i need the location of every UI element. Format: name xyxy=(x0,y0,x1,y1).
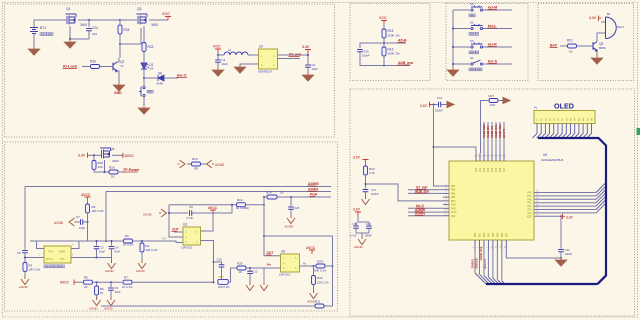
svg-text:10K 0.1%: 10K 0.1% xyxy=(218,285,230,289)
wire: Q5 emitter to ground xyxy=(596,51,598,58)
svg-text:L1: L1 xyxy=(228,48,232,52)
svg-text:PA12: PA12 xyxy=(451,204,457,207)
switch S2 xyxy=(471,24,483,30)
capacitor C30 xyxy=(357,50,363,52)
svg-text:PB4: PB4 xyxy=(451,197,456,199)
svg-text:R26: R26 xyxy=(109,166,115,170)
wire: U6 feedback top xyxy=(264,235,333,237)
wire: branch to MCU top pin1 xyxy=(434,147,477,153)
svg-text:AVCC: AVCC xyxy=(81,193,91,197)
analog ground reference into in- xyxy=(159,209,167,217)
svg-text:PA10: PA10 xyxy=(451,211,457,214)
svg-text:AGND: AGND xyxy=(54,221,64,225)
bus entry bottom pin 2 xyxy=(479,274,489,284)
wire: VCC to L1 and C1 xyxy=(218,52,224,55)
wire: R7 to NTC network xyxy=(132,281,214,283)
svg-text:C5: C5 xyxy=(115,286,119,290)
svg-text:ker-C: ker-C xyxy=(177,74,187,78)
svg-text:C23: C23 xyxy=(294,206,300,210)
svg-text:VDD: VDD xyxy=(527,216,532,218)
power port AVCC out xyxy=(121,153,123,158)
svg-text:BT1: BT1 xyxy=(40,26,46,30)
wire: Q5 collector to buzzer xyxy=(597,33,605,42)
svg-text:OLED-DC: OLED-DC xyxy=(486,126,490,138)
wire: R15 to AD-B node xyxy=(383,38,385,47)
wire: node to push button xyxy=(143,78,145,86)
wire: 3.3V to C11 xyxy=(432,104,438,106)
wire: MCU bottom pin 5 to bus xyxy=(492,250,494,278)
wire: C11 to power arrow xyxy=(441,104,447,106)
svg-text:PA11: PA11 xyxy=(451,207,457,210)
wire: row S3 left xyxy=(453,46,470,48)
svg-text:RS: RS xyxy=(583,117,585,121)
wire: to C23 xyxy=(290,197,292,206)
svg-text:1K: 1K xyxy=(569,50,573,54)
ground of keys xyxy=(447,67,459,76)
wire: MCU bottom pin 1 to bus xyxy=(474,250,476,273)
wire: C4 bottom to AGND xyxy=(97,258,112,262)
svg-text:CS: CS xyxy=(587,117,589,121)
push button switch xyxy=(139,86,145,96)
wire: C6 branch xyxy=(169,212,188,214)
transistor Q2 NPN xyxy=(113,62,117,72)
wire: PGA line xyxy=(264,196,331,198)
wire: to C15 C16 pair xyxy=(358,215,369,222)
wire: R20 to C17 xyxy=(365,175,367,189)
svg-text:P1: P1 xyxy=(534,106,538,110)
svg-text:AGND: AGND xyxy=(215,163,225,167)
svg-text:PB4: PB4 xyxy=(493,232,495,237)
wire: signal A2M01 long xyxy=(106,191,331,193)
wire: 3.2V to R20 xyxy=(365,162,367,166)
net label OUT at U3 xyxy=(174,231,183,233)
svg-text:AVCC: AVCC xyxy=(306,246,316,250)
svg-text:PA5: PA5 xyxy=(495,167,498,172)
svg-text:AGND: AGND xyxy=(285,225,295,229)
svg-text:AVCC: AVCC xyxy=(125,154,135,158)
svg-text:C4: C4 xyxy=(115,246,119,250)
resistor R16 xyxy=(382,47,386,56)
svg-text:2K: 2K xyxy=(84,285,88,289)
resistor R20 xyxy=(364,166,368,175)
op-amp U3 xyxy=(183,227,201,245)
svg-text:Buzz: Buzz xyxy=(618,25,625,29)
svg-text:100nF: 100nF xyxy=(435,109,443,113)
svg-text:GND: GND xyxy=(114,91,122,95)
wire: node to R25 xyxy=(93,155,95,160)
svg-text:PB5: PB5 xyxy=(451,193,456,195)
wire: MCU top pin 4 up xyxy=(487,122,489,153)
MCU bottom pin 5 stub xyxy=(492,240,494,250)
wire: R34 to gate node xyxy=(119,34,121,44)
resistor R24 xyxy=(267,195,277,199)
voltage regulator U2 xyxy=(259,49,278,69)
svg-text:R28: R28 xyxy=(237,262,243,266)
svg-text:4.7K: 4.7K xyxy=(369,171,375,175)
switch S1 xyxy=(471,6,483,12)
resistor R27 xyxy=(489,99,498,103)
wire: MCU top pin 6 up xyxy=(495,122,497,153)
capacitor C8 xyxy=(22,251,28,253)
block border: AD divider section xyxy=(350,4,430,81)
transistor Q1 PMOS xyxy=(66,14,77,25)
bus entry bottom pin 4 xyxy=(488,277,495,284)
resistor R36 xyxy=(91,65,100,69)
capacitor C4 xyxy=(111,241,113,246)
wire: row S4 left xyxy=(453,63,470,65)
svg-text:10K 0.1%: 10K 0.1% xyxy=(317,281,329,285)
wire: C12 bottom from MCU bottom pin8 xyxy=(506,250,561,258)
svg-text:PB0: PB0 xyxy=(475,232,477,237)
MCU top pin 6 stub xyxy=(495,153,497,161)
svg-text:ST_msi: ST_msi xyxy=(289,53,301,57)
wire: Q3 to VCC xyxy=(149,19,168,21)
ground link resistor R19 with arrows xyxy=(178,160,186,168)
svg-text:R5: R5 xyxy=(84,276,88,280)
resistor R7 xyxy=(123,280,132,284)
ground under U2 xyxy=(234,64,246,73)
analog ground stub near U6 xyxy=(263,268,265,283)
wire: MCU top pin 5 up xyxy=(491,122,493,153)
wire: rail Q1 to C24 xyxy=(78,19,120,21)
resistor R3 xyxy=(23,263,27,272)
MCU bottom pin 7 stub xyxy=(501,240,503,250)
wire: D1 to node xyxy=(143,69,145,78)
wire: R33 to LED D1 xyxy=(143,52,145,63)
wire: bottom rail xyxy=(101,305,333,307)
resistor R26 xyxy=(109,170,118,174)
svg-text:200K 0.1%: 200K 0.1% xyxy=(313,269,327,273)
buzzer B1 xyxy=(606,17,617,39)
svg-text:PB7: PB7 xyxy=(506,232,508,237)
wire: AVCC to R5 xyxy=(77,281,84,283)
svg-text:OUT: OUT xyxy=(172,228,179,232)
svg-text:200K 1%: 200K 1% xyxy=(388,34,401,38)
wire: MCU right pin 1 to bus xyxy=(534,192,596,194)
svg-text:R31: R31 xyxy=(315,300,321,304)
svg-text:S2: S2 xyxy=(470,21,474,25)
svg-text:PA2: PA2 xyxy=(483,167,486,172)
svg-text:VCC: VCC xyxy=(162,12,170,16)
svg-text:PA3: PA3 xyxy=(487,167,490,172)
op-amp U6 xyxy=(281,254,300,272)
wire: battery to ground xyxy=(33,34,35,49)
switch S3 xyxy=(471,43,483,49)
svg-text:AGND: AGND xyxy=(105,269,115,273)
wire: U6 output xyxy=(300,265,316,267)
analog ground AGND left of C7 xyxy=(69,218,77,226)
ground under Q1 xyxy=(64,39,76,48)
transistor Q3 PMOS xyxy=(137,14,148,25)
svg-text:GND: GND xyxy=(59,250,65,254)
svg-text:3.3V: 3.3V xyxy=(420,104,428,108)
wire: Q4 gate down xyxy=(104,160,106,172)
wire: gate node to Q3 gate xyxy=(120,28,141,44)
svg-text:PGA: PGA xyxy=(310,193,318,197)
svg-text:3.3V: 3.3V xyxy=(566,216,574,220)
svg-text:TP+: TP+ xyxy=(48,250,54,254)
wire: row S3 right xyxy=(483,46,512,48)
analog ground under R2 xyxy=(138,260,146,269)
svg-text:AVCC: AVCC xyxy=(60,281,69,285)
wire: battery top rail xyxy=(34,20,66,27)
svg-text:C12: C12 xyxy=(565,248,571,252)
MCU left pin 5 stub xyxy=(443,200,449,202)
svg-text:10pF: 10pF xyxy=(99,250,105,254)
MCU left pin 6 stub xyxy=(443,204,449,206)
svg-text:R19: R19 xyxy=(192,157,198,161)
wire: R3 to AGND xyxy=(24,272,26,278)
wire: X1 to U6 in- xyxy=(264,236,281,256)
wire: W2 left drop to sensor rail xyxy=(105,192,107,242)
svg-text:10K 0.1%: 10K 0.1% xyxy=(29,268,41,272)
analog ground under C23 xyxy=(287,215,295,224)
switch S4 xyxy=(471,60,483,65)
MCU top pin 2 stub xyxy=(479,153,481,161)
wire: MCU bottom pin 2 to bus xyxy=(478,250,480,274)
transistor Q4 PMOS xyxy=(100,148,111,159)
MCU bottom pin 8 stub xyxy=(505,240,507,250)
svg-text:4148: 4148 xyxy=(156,82,163,86)
svg-text:3.3V: 3.3V xyxy=(302,45,310,49)
bus: OLED harness xyxy=(538,138,606,284)
ground under button xyxy=(138,105,150,114)
svg-text:8050: 8050 xyxy=(599,46,606,50)
svg-text:PB7: PB7 xyxy=(451,186,456,188)
MCU top pin 3 stub xyxy=(483,153,485,161)
svg-text:4.7uF: 4.7uF xyxy=(186,216,193,220)
bus entry right pin 4 xyxy=(596,193,606,203)
svg-text:S1: S1 xyxy=(470,2,474,6)
wire: Q2 collector up xyxy=(117,58,119,62)
wire: AVCC to R8 xyxy=(87,200,89,204)
wire: L1 to U2 pin1 xyxy=(248,54,258,56)
svg-text:R15: R15 xyxy=(388,29,394,33)
svg-text:ker-R: ker-R xyxy=(488,43,497,47)
svg-text:Bell: Bell xyxy=(550,44,557,48)
inductor L1 xyxy=(224,52,248,55)
svg-text:R21: R21 xyxy=(567,39,573,43)
svg-text:R3: R3 xyxy=(29,264,33,268)
wire: keys left vertical xyxy=(452,10,454,69)
svg-text:OLED-RES: OLED-RES xyxy=(482,124,486,138)
svg-text:BOOT0: BOOT0 xyxy=(502,128,506,138)
wire: R29 to X2 xyxy=(325,265,333,267)
bus: bottom run xyxy=(486,276,606,285)
wire: 3.3V node down to C12 xyxy=(560,216,562,248)
wire: R8 node down to sensor rail xyxy=(87,222,89,241)
svg-text:IO-Lock: IO-Lock xyxy=(63,65,78,69)
svg-text:1K 0.1%: 1K 0.1% xyxy=(122,285,133,289)
wire: R21 to Q5 base xyxy=(577,45,593,47)
svg-text:1K: 1K xyxy=(280,191,284,195)
svg-text:ADB_msi: ADB_msi xyxy=(415,189,429,193)
svg-text:OUT: OUT xyxy=(267,251,274,255)
wire: C11 node down to MCU pin1 left xyxy=(434,105,444,187)
svg-text:PA1: PA1 xyxy=(479,167,482,172)
capacitor C17 xyxy=(363,190,369,192)
svg-text:10uF: 10uF xyxy=(222,62,229,66)
MCU left pin 1 stub xyxy=(443,185,449,187)
svg-text:SGM2019: SGM2019 xyxy=(258,70,272,74)
ground under battery xyxy=(28,46,40,55)
svg-text:10K: 10K xyxy=(490,103,495,107)
capacitor C16 xyxy=(366,226,372,228)
wire: ST_msi to pin2 xyxy=(408,189,443,191)
svg-text:C8: C8 xyxy=(17,251,21,255)
svg-text:A2M00: A2M00 xyxy=(308,182,319,186)
MCU bottom pin 2 stub xyxy=(478,240,480,250)
wire: R25 to R26 row xyxy=(94,170,109,173)
wire: MCU right pin 7 to bus xyxy=(534,212,596,214)
bus entry right pin 6 xyxy=(596,200,606,210)
block border: keys section xyxy=(446,4,528,81)
MCU bottom pin 6 stub xyxy=(496,240,498,250)
wire: C30 parallel branch xyxy=(360,43,384,48)
svg-text:PB1: PB1 xyxy=(479,232,481,237)
resistor R28 xyxy=(237,266,246,270)
svg-text:3400: 3400 xyxy=(80,23,87,27)
capacitor C1 xyxy=(217,55,219,59)
wire: R27 right to power arrow xyxy=(498,100,503,102)
analog ground under C5 xyxy=(107,297,115,306)
analog ground under C15C16 xyxy=(358,236,366,245)
svg-text:AVCC: AVCC xyxy=(208,206,218,210)
svg-text:PB5: PB5 xyxy=(497,232,499,237)
svg-text:Q4: Q4 xyxy=(110,147,114,151)
LED D1 xyxy=(141,63,147,69)
svg-text:VCC: VCC xyxy=(213,45,221,49)
svg-text:100K 1%: 100K 1% xyxy=(388,52,401,56)
svg-text:10pF: 10pF xyxy=(79,226,85,230)
capacitor C7 xyxy=(81,219,83,225)
svg-text:4.7uF: 4.7uF xyxy=(350,234,357,238)
MCU top pin 5 stub xyxy=(491,153,493,161)
svg-text:DC: DC xyxy=(579,117,581,121)
svg-text:S4: S4 xyxy=(150,67,154,71)
svg-text:R7: R7 xyxy=(124,276,128,280)
wire: Q3 drain to R33 xyxy=(143,26,145,42)
resistor R8 xyxy=(86,204,90,213)
svg-text:PB3: PB3 xyxy=(451,201,456,203)
wire: R30 branch xyxy=(313,266,315,276)
wire: MCU bottom pin 4 to bus xyxy=(487,250,489,277)
wire: MCU bottom pin 3 to bus xyxy=(483,250,485,276)
svg-text:PA4: PA4 xyxy=(527,212,532,215)
sensor top rail xyxy=(30,240,123,242)
svg-text:Q3: Q3 xyxy=(137,7,142,11)
OLED pins to bus xyxy=(533,124,538,139)
svg-text:PF1: PF1 xyxy=(527,196,532,198)
svg-text:104: 104 xyxy=(92,32,97,36)
wire: VCC to R15 xyxy=(383,24,385,29)
wire: 3.3V to buzzer top pin xyxy=(601,21,605,23)
svg-text:S4: S4 xyxy=(470,56,474,60)
bus entry right pin 7 xyxy=(596,203,606,213)
wire: 3.3V rail down xyxy=(307,53,309,64)
block border: MCU section xyxy=(350,89,635,316)
resistor R31 bottom xyxy=(315,304,324,308)
svg-text:PB3: PB3 xyxy=(488,232,490,237)
wire: Bell to R21 xyxy=(560,45,567,47)
wire: R28 to U6 in+ xyxy=(247,267,281,269)
microcontroller U5 GD32E230 xyxy=(449,161,534,240)
wire: MCU right pin 2 to bus xyxy=(534,195,596,197)
svg-text:R29: R29 xyxy=(317,260,323,264)
MCU left pin 4 stub xyxy=(443,196,449,198)
block border: buzzer section xyxy=(538,4,634,81)
svg-text:ker-M: ker-M xyxy=(488,6,497,10)
capacitor C24 xyxy=(88,20,90,27)
svg-text:NTC+: NTC+ xyxy=(46,257,54,261)
wire: signal A2M00 long xyxy=(25,186,331,188)
ground GND under Q2 xyxy=(113,82,125,91)
svg-text:3.3V: 3.3V xyxy=(589,16,597,20)
wire: Q4 to AVCC xyxy=(112,154,123,156)
svg-text:VD: VD xyxy=(591,118,593,121)
svg-text:AGND: AGND xyxy=(89,307,99,311)
svg-text:GD32E230K8U6: GD32E230K8U6 xyxy=(541,158,564,162)
svg-text:AD-B: AD-B xyxy=(398,39,407,43)
svg-text:9K 1%(B1): 9K 1%(B1) xyxy=(236,206,249,210)
power arrow right of C11 xyxy=(447,102,454,108)
svg-text:R36: R36 xyxy=(90,60,96,64)
bus entry bottom pin 5 xyxy=(493,278,499,284)
wire: AVCC down to U3 power pin xyxy=(201,213,214,231)
svg-text:3.2V: 3.2V xyxy=(353,208,361,212)
wire: U2 output to 3.3V rail xyxy=(278,54,309,56)
svg-text:A2M01: A2M01 xyxy=(308,188,319,192)
svg-text:S3: S3 xyxy=(470,39,474,43)
svg-text:U3: U3 xyxy=(183,223,187,227)
svg-text:AGND: AGND xyxy=(354,245,364,249)
wire: node to AD-B label xyxy=(384,42,406,44)
wire: MCU bottom pin 6 to bus xyxy=(496,250,498,280)
MCU left pin 8 stub xyxy=(443,211,449,213)
analog ground under C22 xyxy=(246,282,254,291)
battery BT1 xyxy=(30,28,38,34)
analog ground under R3 xyxy=(21,276,29,285)
resistor R1 xyxy=(124,239,133,243)
svg-text:OLED: OLED xyxy=(554,102,574,111)
svg-text:C6: C6 xyxy=(189,205,193,209)
MCU left pin 3 stub xyxy=(443,192,449,194)
svg-text:PA3: PA3 xyxy=(527,209,532,212)
wire: row S1 left xyxy=(453,9,470,11)
svg-text:PA1: PA1 xyxy=(527,202,532,205)
bus entry right pin 3 xyxy=(596,189,606,199)
svg-text:Ker-S: Ker-S xyxy=(488,60,498,64)
wire: gate node down to Q2 collector xyxy=(119,44,121,58)
wire: A2M01 to pin9 xyxy=(408,215,443,217)
wire: R20 node to pin5 xyxy=(366,184,444,201)
wire: U2 gnd pin to ground xyxy=(240,64,259,66)
MCU top pin 4 stub xyxy=(487,153,489,161)
svg-text:LMV321: LMV321 xyxy=(279,273,291,277)
svg-text:OLED-CS: OLED-CS xyxy=(490,126,494,138)
wire: R1 to U3 input xyxy=(133,241,184,243)
svg-text:10K 0.1%: 10K 0.1% xyxy=(146,248,159,252)
capacitor C15 xyxy=(353,226,359,228)
svg-text:PB6: PB6 xyxy=(451,190,456,192)
capacitor C22 xyxy=(249,268,251,271)
capacitor C6 xyxy=(190,210,192,216)
wire: D6 to ker-C label xyxy=(164,77,178,79)
svg-text:RD: RD xyxy=(571,117,573,121)
svg-text:1K: 1K xyxy=(239,270,243,274)
wire: rail to Q3 xyxy=(120,19,137,21)
svg-text:1K: 1K xyxy=(100,291,104,295)
